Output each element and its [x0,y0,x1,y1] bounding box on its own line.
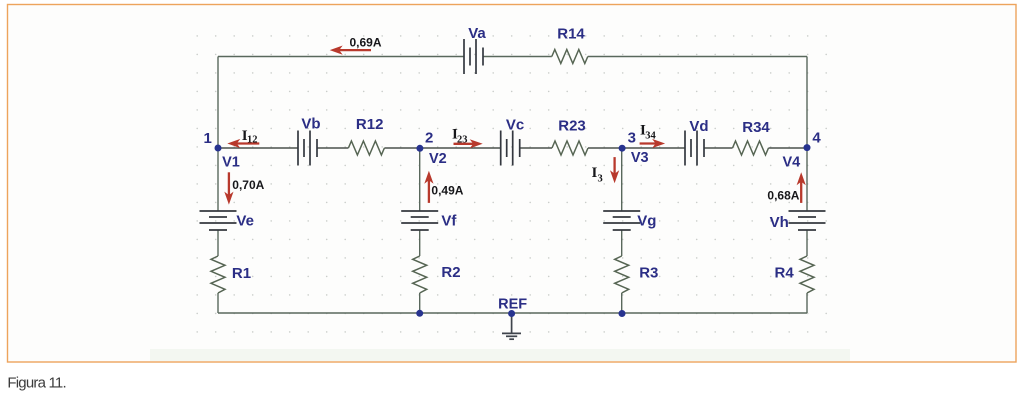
svg-text:R1: R1 [232,265,251,282]
svg-text:12: 12 [247,135,258,146]
svg-text:V4: V4 [783,155,801,171]
svg-text:0,69A: 0,69A [350,36,382,50]
svg-text:V2: V2 [429,151,447,167]
svg-text:2: 2 [425,129,433,146]
svg-text:4: 4 [812,130,821,147]
svg-text:1: 1 [204,130,212,147]
svg-text:0,68A: 0,68A [767,189,799,203]
svg-text:V1: V1 [222,155,240,171]
svg-text:V3: V3 [631,150,649,166]
svg-text:R4: R4 [775,265,795,282]
svg-text:Figura 11.: Figura 11. [7,374,65,391]
svg-text:0,49A: 0,49A [431,184,463,198]
svg-text:Vg: Vg [637,213,656,230]
svg-text:Vf: Vf [441,213,457,230]
svg-text:Vc: Vc [506,117,524,134]
svg-text:23: 23 [457,134,468,145]
svg-text:R23: R23 [558,118,586,135]
svg-text:R3: R3 [639,265,658,282]
svg-text:Vh: Vh [770,214,789,231]
svg-text:0,70A: 0,70A [232,178,264,192]
svg-text:R14: R14 [557,26,585,43]
svg-text:Ve: Ve [236,213,254,230]
svg-text:Va: Va [468,25,486,42]
svg-text:Vd: Vd [689,118,708,135]
svg-text:Vb: Vb [301,116,320,133]
svg-text:R12: R12 [356,116,384,133]
svg-text:3: 3 [628,130,636,147]
svg-text:R2: R2 [441,264,460,281]
svg-text:3: 3 [598,174,603,185]
svg-text:R34: R34 [742,119,770,136]
svg-text:34: 34 [645,131,656,142]
svg-text:REF: REF [498,297,527,313]
